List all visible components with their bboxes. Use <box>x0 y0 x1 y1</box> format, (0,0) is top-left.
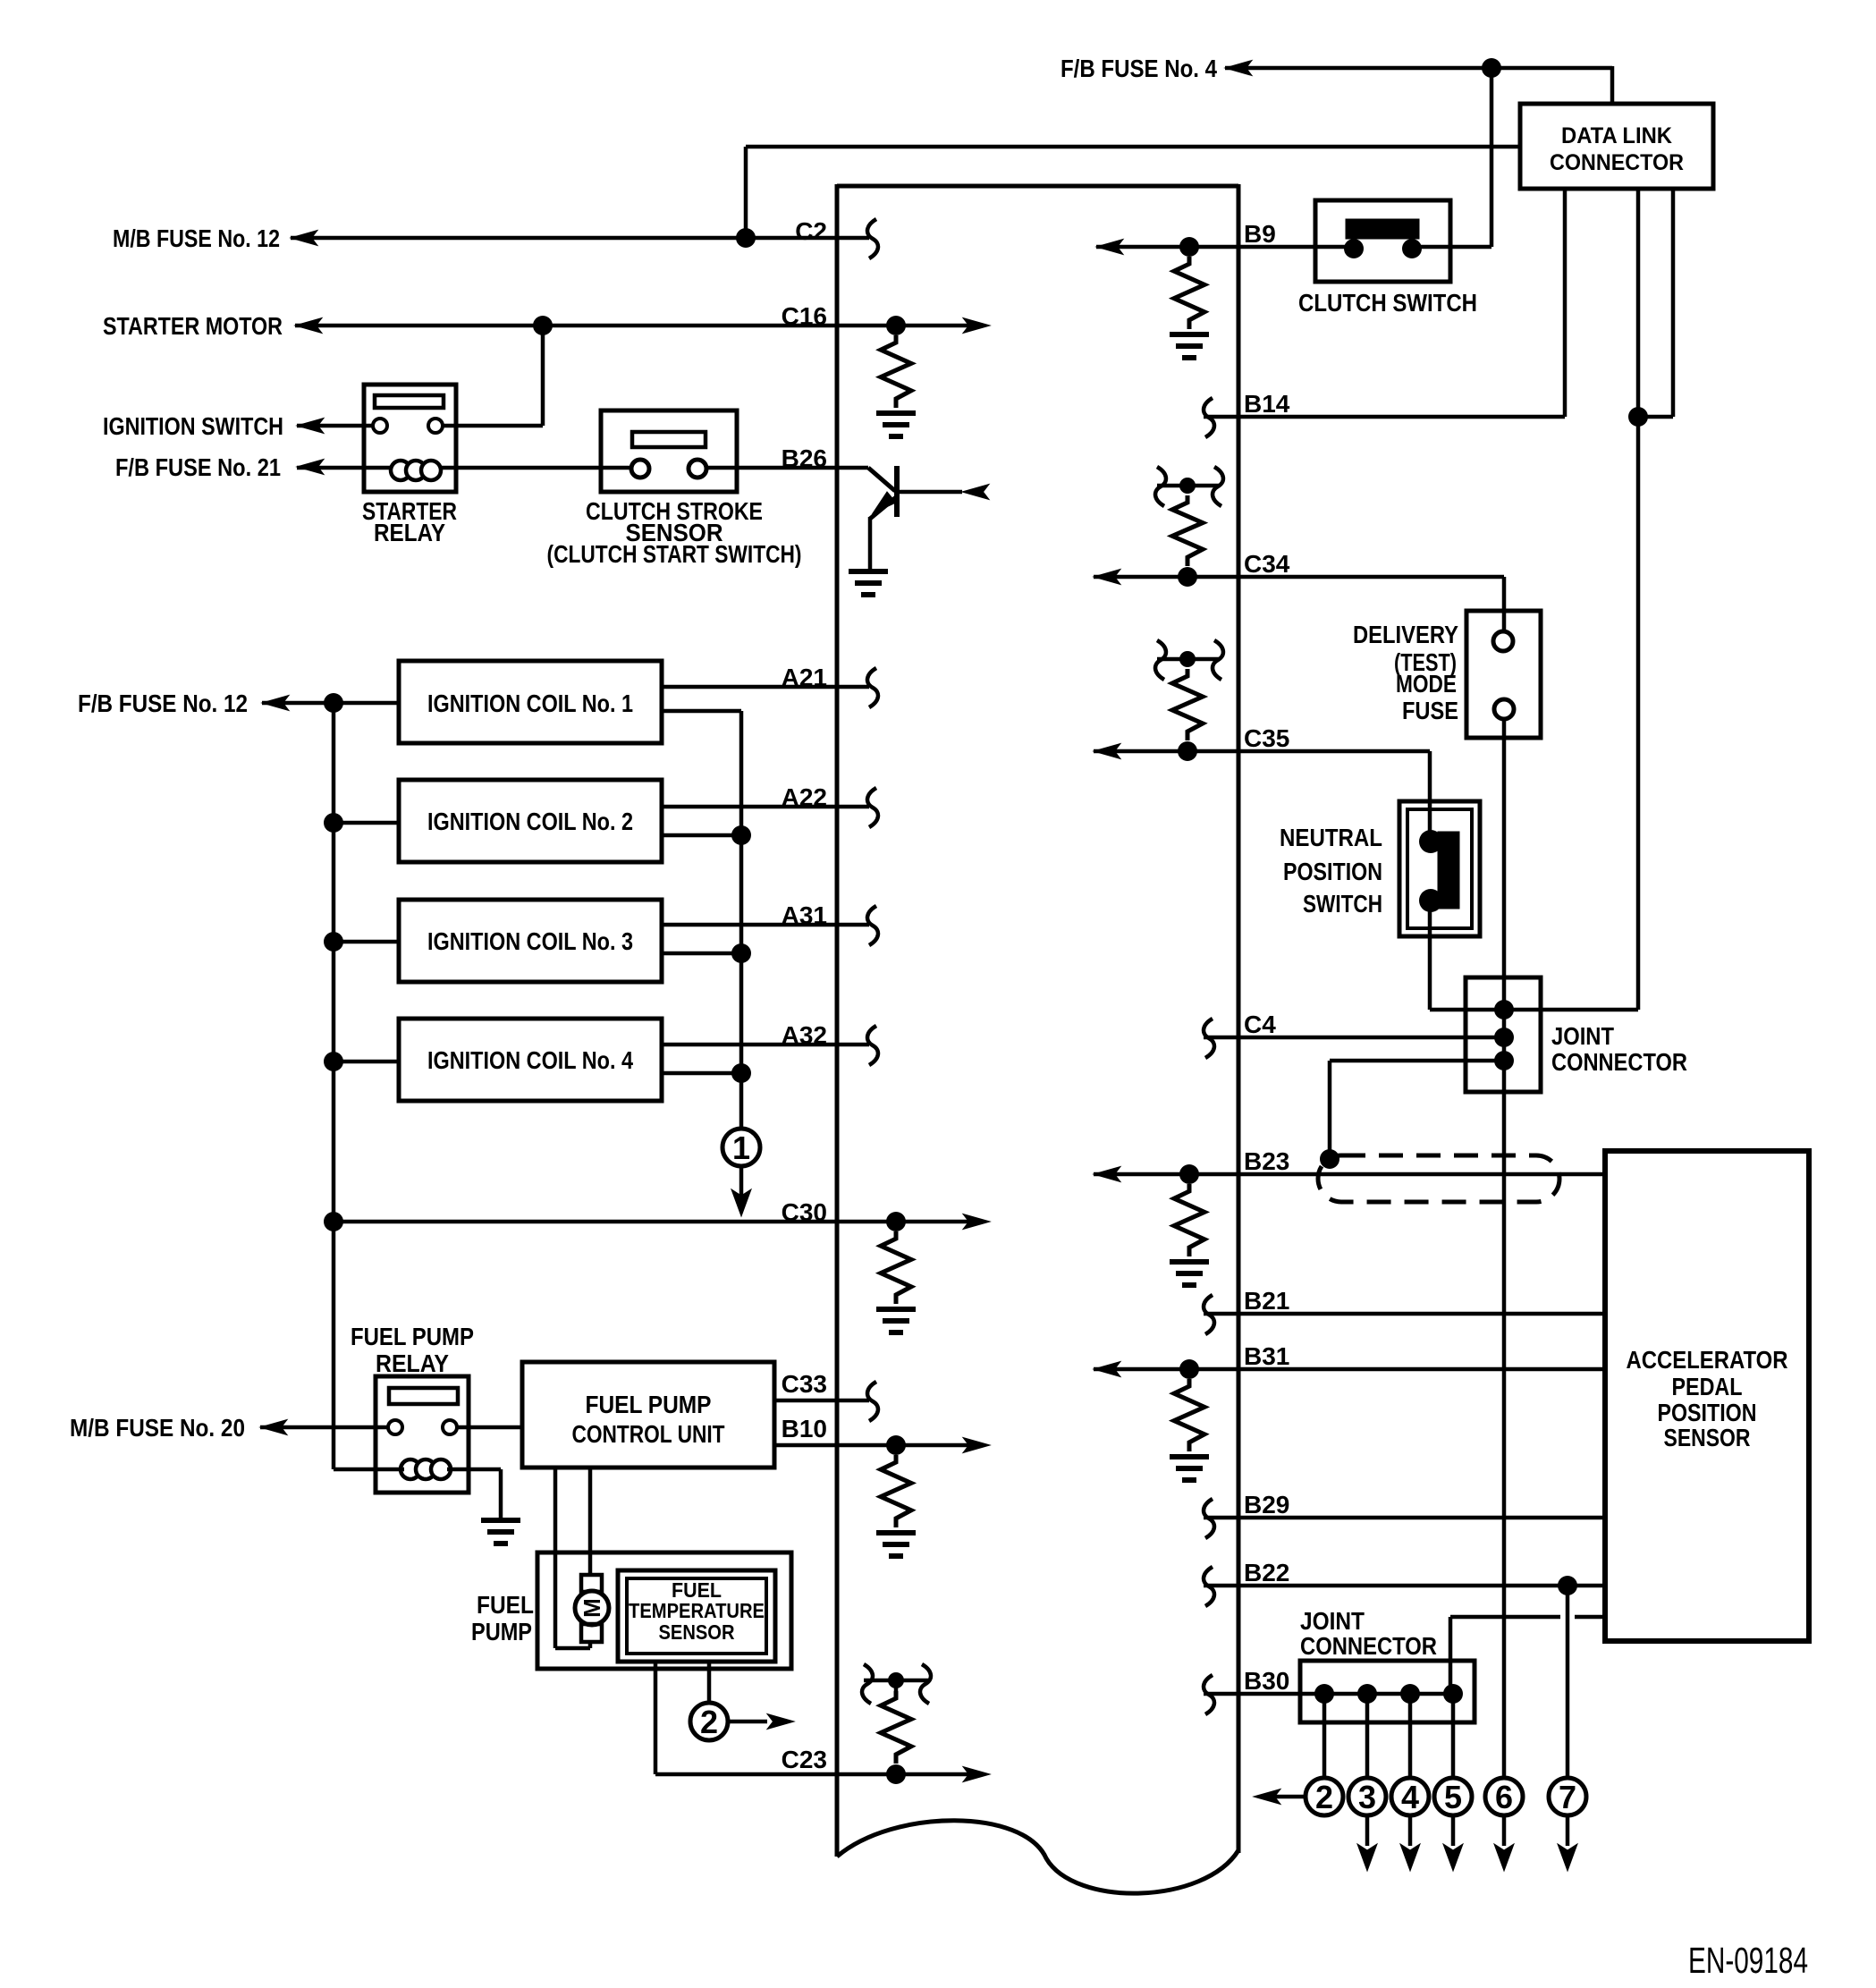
wire ECM bottom wave <box>837 1821 1238 1893</box>
arrow circle 6 down <box>1502 1815 1507 1846</box>
joint connector right box <box>1466 977 1541 1092</box>
fuel pump motor terminal bottom <box>581 1624 602 1642</box>
svg-text:B29: B29 <box>1244 1491 1289 1518</box>
node circle 6 <box>1485 1778 1523 1815</box>
arrow B9 out <box>1096 240 1123 255</box>
delivery fuse contact bottom <box>1494 699 1514 719</box>
svg-text:5: 5 <box>1444 1779 1462 1815</box>
ground C16 resistor <box>876 410 916 416</box>
svg-text:M: M <box>579 1598 605 1618</box>
svg-text:2: 2 <box>1315 1779 1333 1815</box>
junction dot C30 resistor <box>886 1212 906 1231</box>
svg-text:4: 4 <box>1401 1779 1419 1815</box>
wire coil 2 feed <box>334 821 399 825</box>
wire ECM right bus <box>1237 184 1241 1853</box>
svg-text:C23: C23 <box>782 1746 827 1773</box>
wire delivery fuse to joint connector <box>1502 719 1507 1778</box>
junction dot coil 2 feed <box>324 813 343 833</box>
svg-text:MODE: MODE <box>1396 670 1457 698</box>
svg-text:IGNITION COIL No. 3: IGNITION COIL No. 3 <box>427 927 633 955</box>
ignition coil No.1 box <box>399 661 662 743</box>
svg-text:B14: B14 <box>1244 390 1290 418</box>
junction dot joint middle <box>1494 1028 1514 1047</box>
resistor B10 pull-down <box>881 1455 911 1527</box>
svg-text:SENSOR: SENSOR <box>1664 1424 1751 1451</box>
resistor C23 <box>881 1691 911 1764</box>
arrow B31 out <box>1094 1362 1120 1377</box>
arrow C16 into ECM <box>963 318 990 334</box>
arrow circle 2 out <box>1254 1789 1280 1805</box>
wire A31 row <box>662 923 869 927</box>
starter relay K1 box <box>364 385 456 492</box>
wire coil 1 return <box>662 709 741 714</box>
break symbol C4 <box>1204 1019 1214 1058</box>
wire B23 row <box>1094 1172 1605 1177</box>
wire C33 row <box>774 1399 869 1403</box>
wire C2 to DLC <box>744 147 748 238</box>
wire coil 3 feed <box>334 940 399 944</box>
break symbol C35 stub right <box>1213 640 1223 680</box>
junction dot B23 resistor <box>1179 1164 1199 1184</box>
fuel pump motor terminal top <box>581 1575 602 1592</box>
wire B30 pin1 down <box>1322 1694 1327 1778</box>
wire FTS pin right to circle 2 <box>707 1662 712 1703</box>
wire clutch switch internal <box>1315 245 1354 250</box>
junction dot B30 pin4 <box>1443 1684 1463 1704</box>
transistor Q1 emitter <box>870 497 896 519</box>
wire B30 row <box>1204 1692 1453 1696</box>
arrow circle 4 down <box>1408 1815 1413 1846</box>
wire M/B fuse 20 row <box>260 1425 390 1430</box>
arrow C35 out <box>1094 744 1120 759</box>
break symbol C35 stub left <box>1155 640 1166 680</box>
svg-text:CONNECTOR: CONNECTOR <box>1300 1632 1437 1660</box>
node circle 2 fuel temp <box>690 1703 728 1740</box>
svg-text:M/B FUSE No. 20: M/B FUSE No. 20 <box>70 1414 245 1442</box>
break symbol C34 stub left <box>1155 467 1166 506</box>
wire A32 row <box>662 1043 869 1047</box>
junction dot C23 stub <box>888 1672 904 1688</box>
junction dot B30 pin1 <box>1314 1684 1334 1704</box>
accelerator pedal position sensor box <box>1605 1151 1809 1641</box>
wire FTS pin left to C23 <box>654 1662 658 1774</box>
resistor C34 <box>1172 495 1203 566</box>
junction dot coil 3 return <box>731 943 751 963</box>
clutch stroke sensor bar <box>632 432 706 447</box>
svg-text:CONNECTOR: CONNECTOR <box>1551 1048 1687 1076</box>
junction dot B31 resistor <box>1179 1359 1199 1379</box>
junction dot shield <box>1320 1149 1339 1169</box>
wire C30 row <box>334 1220 968 1224</box>
svg-text:DATA LINK: DATA LINK <box>1561 123 1672 148</box>
junction dot B30 pin3 <box>1400 1684 1420 1704</box>
arrow to STARTER MOTOR <box>295 318 322 334</box>
junction dot joint top <box>1494 1000 1514 1019</box>
ground B31 resistor <box>1170 1454 1209 1459</box>
arrow to IGNITION SWITCH <box>297 419 324 434</box>
clutch switch contact left <box>1344 239 1364 258</box>
arrow B23 out <box>1094 1167 1120 1182</box>
neutral position switch box <box>1399 801 1480 936</box>
break stub above C23 <box>864 1679 928 1683</box>
wire B30 pin4 down <box>1451 1694 1456 1778</box>
wire ignition switch to relay contact <box>297 424 375 428</box>
wire DLC pin 3 jog <box>1671 189 1676 417</box>
break symbol B22 <box>1204 1567 1214 1606</box>
svg-text:CONNECTOR: CONNECTOR <box>1550 150 1684 175</box>
fuel pump relay contact right <box>443 1420 457 1434</box>
wire C16 row <box>295 324 968 328</box>
svg-text:7: 7 <box>1559 1779 1576 1815</box>
wire ECM top edge <box>837 184 1238 189</box>
delivery fuse contact top <box>1493 631 1513 651</box>
svg-text:NEUTRAL: NEUTRAL <box>1280 824 1382 851</box>
ground C30 resistor <box>876 1307 916 1312</box>
arrow to F/B FUSE No. 4 <box>1225 61 1252 76</box>
wire coil 4 feed <box>334 1060 399 1064</box>
data link connector U-DLC box <box>1520 104 1713 189</box>
junction dot coil 4 feed <box>324 1052 343 1071</box>
wire C23 row <box>655 1772 968 1777</box>
svg-text:B22: B22 <box>1244 1559 1289 1586</box>
ground B10 resistor <box>876 1530 916 1535</box>
junction dot C35 <box>1178 741 1197 761</box>
junction dot coil 2 return <box>731 825 751 845</box>
shield dashed around B23 <box>1318 1155 1559 1202</box>
svg-text:C4: C4 <box>1244 1011 1276 1038</box>
svg-text:FUEL: FUEL <box>477 1591 534 1619</box>
svg-text:B10: B10 <box>782 1415 827 1442</box>
wire C4 row <box>1204 1036 1504 1040</box>
svg-text:SENSOR: SENSOR <box>659 1620 735 1644</box>
break symbol B21 <box>1204 1295 1214 1334</box>
svg-text:C35: C35 <box>1244 724 1289 752</box>
wire DLC pin 2 down to joint connector <box>1636 189 1641 1010</box>
svg-text:RELAY: RELAY <box>374 519 445 546</box>
clutch switch bar <box>1346 219 1419 239</box>
wire FPCU pin right down <box>588 1468 593 1575</box>
break stub above C35 <box>1157 657 1220 662</box>
junction dot C30 on supply bus <box>324 1212 343 1231</box>
svg-text:2: 2 <box>700 1704 718 1740</box>
wire relay contact to FPCU <box>456 1425 522 1430</box>
junction dot B22 <box>1558 1576 1577 1595</box>
svg-text:B23: B23 <box>1244 1147 1289 1175</box>
svg-text:SWITCH: SWITCH <box>1303 890 1382 918</box>
fuel pump motor M1 <box>575 1591 609 1625</box>
neutral position switch contact top <box>1419 830 1442 853</box>
wire coil 4 return <box>662 1071 741 1076</box>
wire B14 row <box>1204 415 1565 419</box>
node circle 2 <box>1306 1778 1343 1815</box>
junction dot C23 resistor <box>886 1764 906 1784</box>
svg-text:M/B FUSE No. 12: M/B FUSE No. 12 <box>113 224 280 252</box>
wire C2 row <box>291 236 869 241</box>
junction dot B30 pin2 <box>1357 1684 1377 1704</box>
svg-text:PEDAL: PEDAL <box>1672 1373 1743 1400</box>
svg-text:RELAY: RELAY <box>376 1349 449 1377</box>
svg-text:C2: C2 <box>795 217 827 245</box>
arrow to F/B FUSE No. 12 coils <box>262 696 289 711</box>
wire B21 row <box>1204 1312 1605 1316</box>
fuel pump box <box>537 1552 791 1669</box>
svg-text:FUEL PUMP: FUEL PUMP <box>586 1391 712 1418</box>
wire B22 to circle 7 <box>1566 1586 1570 1778</box>
wire coil return bus <box>739 711 744 1129</box>
wire C23 resistor lead <box>894 1680 899 1691</box>
svg-text:JOINT: JOINT <box>1551 1022 1614 1050</box>
transistor Q1 bar <box>894 466 900 517</box>
resistor C30 pull-down <box>881 1231 911 1304</box>
junction dot C34 <box>1178 567 1197 587</box>
fuel temperature sensor box inner <box>627 1578 766 1654</box>
node circle 4 <box>1391 1778 1429 1815</box>
svg-text:CONTROL UNIT: CONTROL UNIT <box>572 1420 725 1448</box>
arrow C23 into ECM <box>963 1767 990 1782</box>
clutch switch box <box>1315 200 1450 282</box>
break symbol B29 <box>1204 1499 1214 1538</box>
ignition coil No.3 box <box>399 900 662 982</box>
wire relay contact to starter motor junction <box>444 424 543 428</box>
break symbol C23 stub left <box>862 1664 873 1704</box>
wire A22 row <box>662 805 869 809</box>
break symbol B14 <box>1204 398 1214 437</box>
svg-text:POSITION: POSITION <box>1283 858 1382 885</box>
svg-text:1: 1 <box>732 1129 750 1166</box>
svg-text:JOINT: JOINT <box>1300 1607 1365 1635</box>
wire coil 2 return <box>662 833 741 838</box>
fuel pump relay bar <box>389 1388 458 1404</box>
arrow circle 3 down <box>1365 1815 1370 1846</box>
svg-text:B9: B9 <box>1244 220 1276 248</box>
junction dot F/B fuse 4 / clutch switch <box>1482 58 1501 78</box>
starter relay coil <box>391 461 410 480</box>
svg-text:IGNITION SWITCH: IGNITION SWITCH <box>103 412 283 440</box>
svg-text:(CLUTCH START SWITCH): (CLUTCH START SWITCH) <box>547 540 802 568</box>
node circle 3 <box>1348 1778 1386 1815</box>
junction dot C2/DLC feed <box>736 228 756 248</box>
junction dot C16 resistor <box>886 316 906 335</box>
fuel pump relay box <box>376 1376 469 1493</box>
svg-text:IGNITION COIL No. 1: IGNITION COIL No. 1 <box>427 689 633 717</box>
svg-text:B26: B26 <box>782 444 827 472</box>
wire NPS to joint connector <box>1428 902 1432 1010</box>
break symbol A32 <box>867 1026 878 1065</box>
wire coil supply bus <box>332 703 336 1469</box>
break symbol A22 <box>867 788 878 827</box>
arrow circle 7 down <box>1566 1815 1570 1846</box>
svg-text:FUSE: FUSE <box>1402 697 1458 724</box>
wire relay coil to ground <box>447 1468 501 1472</box>
joint connector left box <box>1300 1661 1475 1722</box>
fuel pump relay coil <box>401 1459 420 1479</box>
wire joint bottom to shield <box>1330 1059 1504 1063</box>
fuel pump relay contact left <box>388 1420 402 1434</box>
svg-text:POSITION: POSITION <box>1658 1399 1757 1426</box>
svg-text:F/B FUSE No. 4: F/B FUSE No. 4 <box>1061 55 1217 82</box>
wire ECM left bus <box>835 184 840 1857</box>
arrow to M/B FUSE No. 12 <box>291 231 317 246</box>
wire B26 row <box>706 466 868 470</box>
svg-text:EN-09184: EN-09184 <box>1688 1940 1808 1981</box>
svg-text:IGNITION COIL No. 4: IGNITION COIL No. 4 <box>427 1046 633 1074</box>
wire APS jog to joint connector <box>1450 1615 1560 1620</box>
arrow C34 out <box>1094 570 1120 585</box>
resistor B23 pull-down <box>1174 1184 1204 1256</box>
svg-text:PUMP: PUMP <box>471 1618 532 1645</box>
arrow circle 1 down <box>739 1166 744 1200</box>
wire B29 row <box>1204 1516 1605 1520</box>
wire clutch switch to fuse junction <box>1490 68 1494 247</box>
break symbol C23 stub right <box>920 1664 931 1704</box>
resistor C35 <box>1172 669 1203 740</box>
svg-text:IGNITION COIL No. 2: IGNITION COIL No. 2 <box>427 808 633 835</box>
break symbol C33 <box>867 1382 878 1421</box>
clutch stroke sensor contact right <box>689 460 706 478</box>
wire B31 row <box>1094 1367 1605 1372</box>
node circle 7 <box>1549 1778 1586 1815</box>
arrow B10 into ECM <box>963 1438 990 1453</box>
junction dot coil 4 return <box>731 1063 751 1083</box>
clutch stroke sensor box <box>601 410 737 492</box>
ignition coil No.4 box <box>399 1019 662 1101</box>
ground transistor emitter <box>849 569 888 574</box>
svg-text:C34: C34 <box>1244 550 1290 578</box>
junction dot C35 stub <box>1179 651 1196 667</box>
wire coil 3 return <box>662 952 741 956</box>
svg-text:B30: B30 <box>1244 1667 1289 1695</box>
svg-text:FUEL PUMP: FUEL PUMP <box>351 1323 474 1350</box>
ground B23 resistor <box>1170 1259 1209 1265</box>
neutral position switch contact bottom <box>1419 889 1442 912</box>
wire B30 pin2 down <box>1365 1694 1370 1778</box>
wire F/B fuse 4 feed <box>1225 66 1612 71</box>
junction dot coil 3 feed <box>324 932 343 952</box>
svg-text:TEMPERATURE: TEMPERATURE <box>629 1599 765 1622</box>
wire B10 row <box>774 1443 968 1448</box>
neutral position switch blade <box>1438 832 1459 909</box>
starter relay contact left <box>373 419 387 433</box>
clutch switch contact right <box>1402 239 1422 258</box>
ignition coil No.2 box <box>399 780 662 862</box>
break symbol B30 <box>1204 1675 1214 1714</box>
fuel pump control unit box <box>522 1362 774 1468</box>
svg-text:CLUTCH SWITCH: CLUTCH SWITCH <box>1298 289 1477 317</box>
resistor B9 pull-down <box>1174 257 1204 329</box>
wire B22 row <box>1204 1584 1605 1588</box>
wire F/B fuse 21 row <box>297 466 633 470</box>
starter relay contact right <box>428 419 443 433</box>
junction dot C16 starter relay <box>533 316 553 335</box>
svg-text:ACCELERATOR: ACCELERATOR <box>1627 1346 1788 1374</box>
break symbol A21 <box>867 668 878 707</box>
svg-text:F/B FUSE No. 21: F/B FUSE No. 21 <box>115 453 281 481</box>
junction dot joint bottom <box>1494 1051 1514 1070</box>
delivery test mode fuse box <box>1466 611 1541 738</box>
junction dot DLC pins at B14 level <box>1628 407 1648 427</box>
svg-text:3: 3 <box>1358 1779 1376 1815</box>
wire F/B fuse 12 to coil 1 <box>262 701 399 706</box>
break symbol C2 <box>867 219 878 258</box>
svg-text:F/B FUSE No. 12: F/B FUSE No. 12 <box>78 689 248 717</box>
arrow C30 into ECM <box>963 1214 990 1230</box>
junction dot coil 1 feed <box>324 693 343 713</box>
arrow to F/B FUSE No. 21 <box>297 460 324 475</box>
node circle 5 <box>1434 1778 1472 1815</box>
wire supply bus to relay coil <box>334 1468 404 1472</box>
arrow circle 5 down <box>1451 1815 1456 1846</box>
wire FPCU pin left down <box>554 1468 558 1648</box>
wire B9 row <box>1096 245 1315 250</box>
svg-text:B21: B21 <box>1244 1287 1289 1315</box>
svg-text:DELIVERY: DELIVERY <box>1353 621 1458 648</box>
junction dot B10 resistor <box>886 1435 906 1455</box>
junction dot B9 resistor <box>1179 237 1199 257</box>
svg-text:STARTER MOTOR: STARTER MOTOR <box>103 312 283 340</box>
break symbol A31 <box>867 906 878 945</box>
clutch stroke sensor contact left <box>631 460 649 478</box>
svg-text:6: 6 <box>1495 1779 1513 1815</box>
node circle 1 <box>723 1129 760 1166</box>
wire C35 row <box>1094 749 1430 754</box>
wire C34 row <box>1094 575 1504 579</box>
transistor Q1 collector <box>898 490 962 495</box>
wire DLC pin 1 to B14 <box>1563 189 1568 417</box>
ground B9 resistor <box>1170 332 1209 337</box>
resistor C16 pull-down <box>881 335 911 408</box>
fuel temperature sensor box outer <box>618 1570 775 1662</box>
arrow circle 2 fuel temp out <box>728 1720 767 1724</box>
arrow to M/B FUSE No. 20 <box>260 1420 287 1435</box>
break symbol C34 stub right <box>1213 467 1223 506</box>
transistor Q1 base wire <box>868 468 895 491</box>
svg-text:B31: B31 <box>1244 1342 1289 1370</box>
svg-text:C16: C16 <box>782 302 827 330</box>
junction dot C34 stub <box>1179 478 1196 494</box>
wire B30 pin3 down <box>1408 1694 1413 1778</box>
svg-text:C33: C33 <box>782 1370 827 1398</box>
starter relay bar <box>375 395 444 408</box>
resistor B31 pull-down <box>1174 1379 1204 1451</box>
break stub above C34 <box>1157 484 1220 488</box>
wire A21 row <box>662 685 869 689</box>
ground fuel pump relay <box>481 1518 520 1523</box>
